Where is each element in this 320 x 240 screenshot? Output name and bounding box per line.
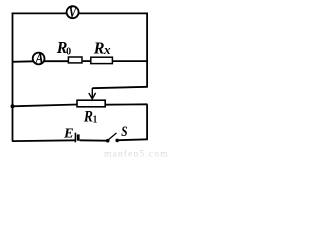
wire row2 left segment <box>12 60 33 63</box>
battery E <box>63 126 78 143</box>
wire right edge upper <box>146 13 148 88</box>
wire R0 to Rx <box>83 60 91 62</box>
svg-text:S: S <box>121 122 127 139</box>
wire battery to switch <box>80 139 107 141</box>
wire switch to bottom right <box>119 138 148 141</box>
wire A to R0 <box>44 60 68 62</box>
svg-text:A: A <box>35 50 44 68</box>
svg-text:R: R <box>93 38 105 58</box>
wire top-left segment <box>12 12 67 14</box>
wire right edge lower <box>146 104 148 140</box>
resistor Rx <box>91 38 113 64</box>
rheostat slider arrow <box>89 88 96 99</box>
wire slider (from right edge to corner above rheostat) <box>92 87 147 88</box>
ammeter A <box>33 50 45 68</box>
resistor R0 <box>56 38 82 63</box>
rheostat R1 <box>77 100 105 126</box>
wire Rx to right edge <box>113 60 148 62</box>
wire left edge <box>12 13 14 142</box>
svg-text:1: 1 <box>93 115 98 126</box>
wire R1 row left <box>12 105 77 107</box>
svg-text:R: R <box>83 109 93 126</box>
svg-text:x: x <box>103 42 111 57</box>
wire top-right segment <box>78 12 148 14</box>
wire R1 row right <box>105 103 148 105</box>
svg-text:0: 0 <box>66 46 71 57</box>
svg-text:E: E <box>63 126 74 142</box>
svg-text:V: V <box>69 4 78 22</box>
junction node left <box>11 104 15 108</box>
svg-text:manfen5.com: manfen5.com <box>104 149 169 160</box>
switch S <box>106 122 128 142</box>
voltmeter V <box>67 4 79 22</box>
wire bottom left (to battery) <box>12 139 75 142</box>
